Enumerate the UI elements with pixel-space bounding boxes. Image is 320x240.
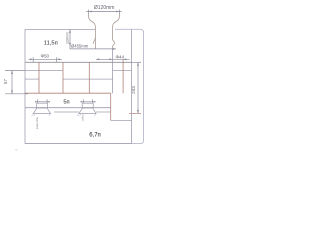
maroon horizontal y93.2: [25, 92, 111, 94]
dimension Ø120mm line: [86, 11, 121, 13]
right foot plate: [82, 103, 93, 108]
dimension Ø120mm arrows: [89, 11, 120, 13]
svg-text:Ø455mm: Ø455mm: [71, 44, 89, 49]
dim F50 arrows: [30, 58, 60, 60]
shelf line y112 left segment: [54, 111, 79, 113]
svg-text:подст: подст: [81, 115, 84, 123]
right dim 203 top stub: [132, 61, 141, 63]
svg-text:203: 203: [131, 86, 136, 94]
svg-text:Ф44: Ф44: [115, 55, 124, 60]
horizontal shelf line y70.6: [25, 70, 63, 72]
svg-text:11,5п: 11,5п: [44, 40, 58, 46]
flue vertical x123.1: [122, 59, 124, 93]
svg-text:подставка: подставка: [35, 117, 38, 130]
left foot ground hatch: [32, 114, 51, 116]
right foot trapezoid: [79, 108, 96, 114]
dim F50 line: [28, 58, 62, 60]
body outline left edge: [24, 29, 26, 143]
vertical dim 120mm arrows: [69, 29, 71, 46]
body bottom edge: [25, 143, 132, 145]
body top edge: [25, 28, 95, 30]
maroon vertical x63: [62, 62, 64, 93]
svg-text:5п: 5п: [63, 100, 69, 106]
body right edge: [131, 29, 133, 143]
left foot tick left: [37, 99, 39, 103]
left dim 57 top stub: [5, 70, 25, 72]
left dim 57 arrows: [11, 71, 13, 94]
dim F44 arrows: [96, 58, 126, 60]
right dim 203 line: [137, 62, 139, 113]
chimney pipe left wall flare: [93, 37, 95, 44]
dimension Ø120mm end ticks: [89, 10, 120, 14]
chimney pipe right wall: [113, 13, 120, 49]
dim F44 line: [96, 58, 130, 60]
svg-text:6,7п: 6,7п: [89, 132, 101, 138]
shelf line y112 right segment: [96, 111, 111, 113]
left foot tick right: [46, 99, 48, 103]
horizontal shelf line y62: [25, 61, 132, 63]
left foot dim arrows: [35, 101, 50, 103]
dim F50 tick left: [32, 57, 34, 62]
horizontal partial line y79 right: [63, 78, 113, 80]
maroon vertical x39: [38, 62, 40, 93]
svg-text:Ф50: Ф50: [40, 54, 49, 59]
horizontal shelf line y70.6 right: [113, 70, 132, 72]
vertical dim 120mm line x70: [69, 29, 71, 49]
step vertical x110.7: [110, 93, 112, 120]
left foot dim line: [35, 101, 50, 103]
right foot dim line: [81, 101, 96, 103]
frame top-right rounded border: [25, 29, 144, 143]
horizontal partial line y79 left: [25, 78, 39, 80]
right foot ground hatch: [77, 114, 96, 116]
svg-text:57: 57: [3, 79, 8, 84]
left foot plate: [37, 103, 48, 108]
left dim 57 bottom stub: [5, 93, 28, 95]
right dim 203 arrows: [137, 62, 139, 113]
flue vertical x112.6: [112, 49, 114, 93]
label Ø455mm arrow: [113, 48, 116, 50]
dim F50 tick right: [56, 57, 58, 62]
right foot tick right: [92, 99, 94, 103]
horizontal line y107.7: [25, 107, 111, 109]
watermark bottom-left: [15, 150, 18, 151]
right foot dim arrows: [81, 101, 96, 103]
right dim 203 bottom stub: [129, 112, 141, 114]
label Ø455mm shelf line: [70, 48, 116, 50]
svg-text:Ø120mm: Ø120mm: [94, 5, 115, 11]
compartment horizontal y120.4: [111, 119, 132, 121]
maroon vertical x89.3: [88, 62, 90, 93]
chimney pipe left wall: [89, 13, 96, 49]
svg-text:120mm: 120mm: [66, 32, 70, 44]
left foot trapezoid: [33, 108, 50, 114]
left dim 57 line: [11, 71, 13, 94]
right foot tick left: [82, 99, 84, 103]
